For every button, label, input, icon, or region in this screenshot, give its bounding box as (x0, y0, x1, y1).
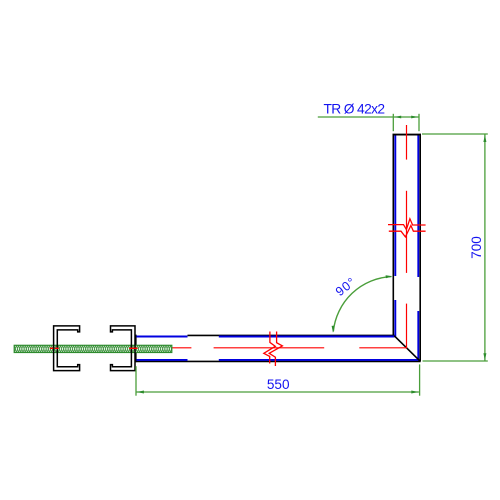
dimension TR 42x2 arrows (394, 116, 418, 119)
threaded rod green hatched (14, 345, 172, 352)
extension lines (392, 114, 394, 131)
tube horizontal inner contour blue (136, 337, 419, 360)
arc arrow bottom (332, 326, 335, 333)
tube vertical top cap (393, 134, 422, 136)
dimension 550 arrows (137, 391, 419, 394)
angle arc 90 green (333, 277, 391, 332)
svg-text:550: 550 (267, 377, 290, 392)
dimension TR 42x2 leader green (318, 114, 419, 131)
bracket channel left (54, 326, 80, 371)
break symbol horizontal tube (264, 332, 283, 367)
dimension 700 arrows (483, 135, 486, 361)
tube horizontal left end cap (135, 335, 137, 363)
tube corner miter black diagonal (394, 336, 420, 362)
tube vertical inner contour blue (395, 136, 418, 361)
rod centerline dashes red (50, 347, 138, 349)
bracket channel right (111, 326, 136, 371)
tube horizontal outer contour black (135, 335, 421, 363)
break symbol vertical tube (388, 219, 426, 237)
dimension 700 green (422, 134, 488, 361)
centerline horizontal red (170, 347, 407, 349)
tube vertical outer contour black (393, 134, 422, 361)
dimension 550 green (136, 364, 420, 395)
centerline vertical red (406, 125, 408, 348)
svg-text:TR Ø 42x2: TR Ø 42x2 (324, 102, 385, 117)
svg-text:700: 700 (469, 236, 484, 259)
arc arrow top (386, 275, 393, 278)
